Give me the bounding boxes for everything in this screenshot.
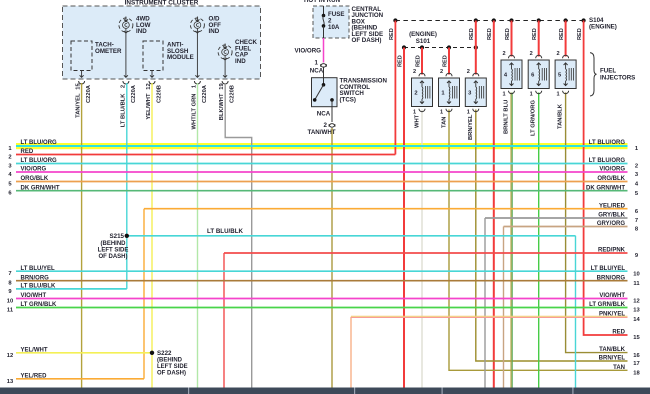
wire tan/wht vertical tcs [331,128,333,391]
svg-text:7: 7 [8,271,11,277]
wire red to injector6 [538,21,540,57]
svg-text:RED: RED [559,28,565,40]
svg-text:RED/PNK: RED/PNK [598,248,626,254]
svg-text:2: 2 [635,164,638,170]
wire row11 LT GRN/BLK [16,307,628,309]
svg-text:17: 17 [633,361,639,367]
svg-text:RED: RED [505,28,511,40]
wire row13 YEL/RED [16,378,144,380]
svg-text:S215: S215 [110,233,125,240]
wire vio/org fuse to tcs [323,38,325,63]
wire wht/lt grn vertical [197,83,199,391]
svg-text:7: 7 [635,218,638,224]
svg-text:13: 13 [633,308,640,314]
svg-text:WHT: WHT [414,114,420,128]
wire pnk/yel horizontal [351,315,628,317]
svg-text:1: 1 [440,109,443,115]
svg-text:10: 10 [7,299,13,305]
wire wht injector2 down [421,110,423,392]
svg-text:LT GRN/ORG: LT GRN/ORG [531,100,537,136]
svg-text:1: 1 [467,109,470,115]
svg-text:16: 16 [633,353,640,359]
svg-text:LT GRN/BLK: LT GRN/BLK [21,302,58,308]
svg-text:13: 13 [7,379,14,385]
wire gry/blk horizontal [485,217,628,219]
wire red S104 to row15 [584,21,628,336]
svg-text:LT BLU/ORG: LT BLU/ORG [21,158,58,164]
bus S101 dashed [404,47,476,49]
S101 junction dot [474,45,478,49]
wire brn/yel injector3 down [476,110,628,362]
bottom bar [0,388,650,394]
wire row9 LT BLU/BLK [16,288,127,290]
svg-text:1: 1 [530,91,533,97]
svg-text:15: 15 [75,83,81,90]
svg-text:C220B: C220B [230,85,236,103]
fuel injector 1 [439,78,460,107]
4wd low indicator lamp [119,18,133,32]
svg-text:BRN/LT BLU: BRN/LT BLU [503,100,509,134]
bottom bar separator [572,388,573,394]
svg-text:INJECTORS: INJECTORS [600,75,635,82]
wire tan/yel vertical [81,83,83,391]
fuel injector 2 [412,78,433,107]
svg-text:WHT/LT GRN: WHT/LT GRN [191,94,197,130]
svg-text:12: 12 [7,353,13,359]
svg-text:1: 1 [413,109,416,115]
wire row4 VIO/ORG [16,171,628,173]
fuse box [313,6,349,38]
svg-text:TAN/BLK: TAN/BLK [557,103,563,129]
wire red to injector2 [421,48,423,75]
svg-text:OF DASH): OF DASH) [157,371,186,377]
svg-text:10A: 10A [328,24,340,31]
bus junction dot [492,18,496,22]
svg-text:RED: RED [532,28,538,40]
svg-text:RED: RED [487,28,493,40]
svg-text:2: 2 [121,85,127,88]
bottom bar separator [442,388,443,394]
svg-text:11: 11 [633,281,640,287]
fuel injector 4 [501,60,522,89]
wire row8 BRN/ORG [16,280,628,282]
wire lt blu/blk S215 horizontal [127,235,576,237]
svg-text:(TCS): (TCS) [340,96,357,103]
wire lt blu/blk S215 to row9 [126,236,128,289]
svg-text:BLK/WHT: BLK/WHT [219,93,225,120]
svg-text:YEL/RED: YEL/RED [21,373,48,379]
S101 junction dot [447,45,451,49]
svg-text:TAN: TAN [613,365,625,371]
svg-text:C220B: C220B [156,85,162,103]
fuel injector 5 [555,60,576,89]
svg-text:IND: IND [209,28,220,35]
svg-text:VIO/ORG: VIO/ORG [295,48,322,55]
svg-text:1: 1 [315,60,319,67]
svg-text:11: 11 [7,308,14,314]
wire 4wd lamp to border [125,33,127,77]
svg-text:C220A: C220A [202,84,208,103]
svg-text:2: 2 [414,90,417,96]
wire row10 VIO/WHT [16,298,628,300]
svg-text:GRY/ORG: GRY/ORG [597,221,625,227]
svg-text:C220A: C220A [86,84,92,103]
svg-text:LT BLU/ORG: LT BLU/ORG [589,140,626,146]
svg-text:NCA: NCA [310,68,324,75]
bottom bar separator [354,388,355,394]
wire row1 LT BLU/ORG highlight yellow [16,143,628,149]
svg-text:BRN/YEL: BRN/YEL [599,356,626,362]
wire red to injector5 [565,21,567,57]
anti-slosh module box [143,41,163,71]
wire tan injector1 down [449,110,628,371]
instrument cluster box [63,6,261,79]
svg-text:2: 2 [8,155,11,161]
tcs box [312,78,338,107]
wire row3 LT BLU/ORG [16,163,628,165]
svg-text:MODULE: MODULE [167,54,194,61]
svg-text:VIO/ORG: VIO/ORG [21,167,47,173]
svg-text:1: 1 [502,91,505,97]
svg-text:LT BLU/BLK: LT BLU/BLK [207,228,244,235]
svg-text:RED: RED [21,149,34,155]
tachometer box [71,41,92,71]
wire lt blu/blk vertical from cluster [126,83,128,236]
svg-text:TAN/BLK: TAN/BLK [599,347,626,353]
wire blk/wht from cluster [225,83,252,391]
svg-text:LT GRN/BLK: LT GRN/BLK [589,302,626,308]
svg-text:LT BLU/YEL: LT BLU/YEL [21,266,56,272]
svg-text:2: 2 [413,69,416,75]
wire red to injector1 [448,48,450,75]
S101 junction dot [402,45,406,49]
wire row1 cyan core [16,145,628,147]
svg-text:RED: RED [442,55,448,67]
bottom bar separator [188,388,189,394]
wire yel/red vertical [143,209,145,379]
wire red to injector4 [511,21,513,57]
svg-text:VIO/WHT: VIO/WHT [21,293,47,299]
wire red S101 left drop [403,48,405,392]
wire row7 LT BLU/YEL [16,270,628,272]
svg-text:OF DASH): OF DASH) [99,254,128,260]
wire anti-slosh to border [151,71,153,78]
svg-text:IND: IND [136,28,147,35]
node S222 [150,351,154,355]
svg-text:BRN/YEL: BRN/YEL [468,114,474,140]
svg-text:PNK/YEL: PNK/YEL [599,311,625,317]
wire red/pnk vertical [223,253,225,391]
svg-text:HOT IN RUN: HOT IN RUN [304,0,341,4]
svg-text:S222: S222 [157,350,172,357]
tcs switch [323,78,325,85]
bus junction dot [537,18,541,22]
svg-text:(ENGINE): (ENGINE) [589,23,617,30]
svg-text:(ENGINE): (ENGINE) [409,31,437,38]
svg-text:FUEL: FUEL [600,68,616,75]
wire red bus to row2 [394,21,396,155]
bus junction dot [474,18,478,22]
svg-text:10: 10 [633,271,639,277]
svg-text:RED: RED [389,28,395,40]
svg-text:NCA: NCA [317,111,331,118]
svg-text:(BEHIND: (BEHIND [101,241,127,247]
svg-text:LT BLU/BLK: LT BLU/BLK [21,284,57,290]
o/d off indicator lamp [190,18,204,32]
svg-text:12: 12 [633,299,639,305]
wire red to injector3 [475,21,477,75]
wire gry/org vertical [503,227,505,392]
bus hot dashed S104 [395,20,583,22]
svg-text:OMETER: OMETER [95,48,122,55]
wire row12 YEL/WHT [16,352,152,354]
check fuel cap indicator lamp [218,45,232,59]
svg-text:VIO/WHT: VIO/WHT [599,293,625,299]
svg-text:RED: RED [577,28,583,40]
svg-text:15: 15 [633,335,640,341]
svg-text:BRN/ORG: BRN/ORG [597,275,626,281]
svg-text:INSTRUMENT CLUSTER: INSTRUMENT CLUSTER [125,0,199,7]
svg-text:LT BLU/YEL: LT BLU/YEL [591,266,626,272]
svg-text:LEFT SIDE: LEFT SIDE [157,364,188,370]
svg-text:DK GRN/WHT: DK GRN/WHT [586,185,625,191]
wire brn/lt blu injector4 down [510,93,512,392]
svg-text:ORG/BLK: ORG/BLK [21,176,49,182]
svg-text:LT BLU/ORG: LT BLU/ORG [21,140,58,146]
svg-text:2: 2 [557,51,560,57]
svg-text:RED: RED [612,330,625,336]
S101 junction dot [420,45,424,49]
svg-text:ORG/BLK: ORG/BLK [597,176,625,182]
bus junction dot [564,18,568,22]
wire row6 DK GRN/WHT [16,190,628,192]
fuel injector 6 [528,60,549,89]
svg-text:18: 18 [633,371,640,377]
svg-text:LT BLU/BLK: LT BLU/BLK [121,93,127,128]
svg-text:TAN: TAN [441,117,447,128]
svg-text:S101: S101 [416,38,431,45]
svg-text:2: 2 [324,122,328,129]
svg-text:LT BLU/ORG: LT BLU/ORG [589,158,626,164]
svg-text:DK GRN/WHT: DK GRN/WHT [21,185,60,191]
svg-text:OF DASH): OF DASH) [352,37,382,44]
svg-text:12: 12 [146,83,152,89]
node S215 [125,234,129,238]
svg-text:YEL/WHT: YEL/WHT [146,93,152,120]
svg-text:C220A: C220A [131,84,137,103]
wire tan/blk injector5 down [566,93,628,353]
wire yel/wht vertical [151,83,153,391]
svg-text:2: 2 [440,69,443,75]
svg-text:IND: IND [235,58,246,65]
svg-text:14: 14 [633,317,640,323]
svg-text:RED: RED [469,28,475,40]
bus junction dot [393,18,397,22]
wire tcs bottom [331,107,333,122]
svg-text:(BEHIND: (BEHIND [157,358,183,364]
wire fuel cap lamp to border [224,60,226,77]
svg-text:RED: RED [415,55,421,67]
fuse 2 10A [323,6,325,16]
svg-text:2: 2 [530,51,533,57]
connector 2 tcs [329,124,335,127]
fuel injectors brace [590,53,597,96]
wire gry/blk vertical [484,218,486,391]
wire lt blu/blk S215 right vertical [575,236,577,391]
svg-text:2: 2 [467,69,470,75]
wire pnk/yel vertical [350,317,352,391]
svg-text:19: 19 [219,83,225,90]
svg-text:YEL/WHT: YEL/WHT [21,347,48,353]
svg-text:RED: RED [397,55,403,67]
wire tach to border [81,71,83,78]
wire red/pnk horizontal [224,252,628,254]
wire yel/red horizontal [144,208,628,210]
wire row5 ORG/BLK [16,181,628,183]
svg-text:YEL/RED: YEL/RED [599,203,626,209]
wire o/d lamp to border [196,33,198,77]
wire red bus drop to bottom [493,21,495,392]
svg-text:2: 2 [502,51,505,57]
svg-text:BRN/ORG: BRN/ORG [21,275,50,281]
wire to tcs box [323,67,325,78]
svg-text:TAN/YEL: TAN/YEL [75,93,81,118]
fuel injector 3 [465,78,486,107]
wire lt grn/org injector6 down [538,93,540,392]
svg-text:VIO/ORG: VIO/ORG [599,167,625,173]
svg-text:LEFT SIDE: LEFT SIDE [98,248,129,254]
wire gry/org horizontal [504,226,628,228]
svg-text:GRY/BLK: GRY/BLK [598,213,625,219]
bus junction dot [582,18,586,22]
wire row2 RED [16,154,395,156]
svg-text:1: 1 [557,91,560,97]
bus junction dot [509,18,513,22]
